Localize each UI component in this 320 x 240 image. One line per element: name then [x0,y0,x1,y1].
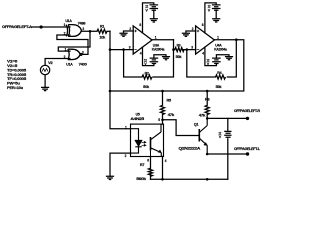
svg-text:R3: R3 [177,44,181,48]
svg-text:560k: 560k [136,177,147,181]
svg-text:4: 4 [140,51,142,55]
svg-text:4: 4 [165,159,167,163]
svg-text:OFFPAGELEFT-L: OFFPAGELEFT-L [234,146,261,151]
svg-text:KA2904a: KA2904a [152,47,165,51]
svg-text:V2: V2 [48,61,53,65]
svg-text:U5: U5 [136,113,140,117]
svg-text:U1A: U1A [65,19,72,23]
svg-text:Q1: Q1 [194,122,199,126]
svg-text:2: 2 [64,55,66,59]
svg-text:2: 2 [192,27,194,31]
svg-text:3: 3 [129,46,131,50]
svg-text:R6: R6 [205,97,210,101]
svg-text:8: 8 [139,23,141,27]
svg-text:1: 1 [64,23,66,27]
svg-text:7400: 7400 [79,62,87,66]
svg-text:4: 4 [202,51,204,55]
svg-text:R1: R1 [100,25,104,29]
svg-text:3: 3 [82,27,84,31]
svg-text:R2: R2 [145,72,149,76]
svg-text:8: 8 [202,23,204,27]
svg-text:6: 6 [147,158,149,162]
svg-text:1: 1 [125,125,127,129]
svg-text:Q2N2222A: Q2N2222A [179,147,201,151]
svg-text:A4N25: A4N25 [130,117,144,121]
svg-text:1: 1 [217,36,219,40]
svg-text:7486: 7486 [78,22,86,26]
svg-text:PER=10u: PER=10u [7,85,24,90]
svg-text:1: 1 [65,48,67,52]
svg-text:2: 2 [125,154,127,158]
svg-text:R5: R5 [167,98,172,102]
svg-text:1: 1 [155,36,157,40]
svg-text:5: 5 [158,118,160,122]
svg-text:2: 2 [64,32,66,36]
svg-text:R7: R7 [140,163,145,167]
svg-text:U1A: U1A [66,63,73,67]
svg-text:OFFPAGELEFT-A: OFFPAGELEFT-A [2,24,32,29]
svg-text:3: 3 [82,51,84,55]
svg-text:2: 2 [129,27,131,31]
svg-text:3: 3 [191,46,193,50]
svg-text:OFFPAGELEFT-R: OFFPAGELEFT-R [234,108,260,113]
svg-text:KA2904a: KA2904a [214,47,227,51]
